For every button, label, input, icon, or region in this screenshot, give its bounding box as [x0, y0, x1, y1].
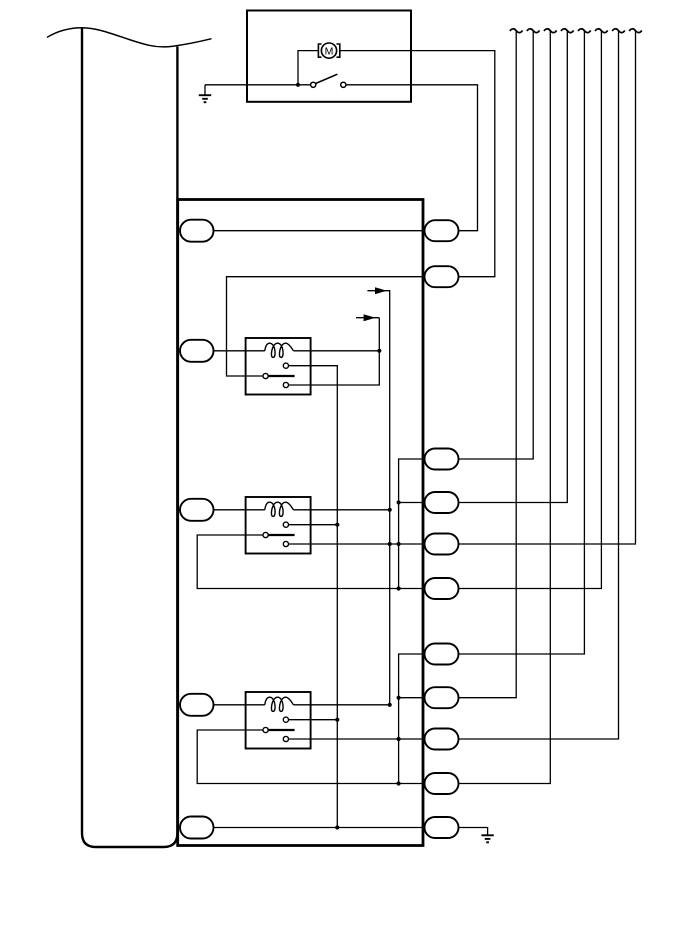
svg-text:M: M [325, 45, 334, 57]
